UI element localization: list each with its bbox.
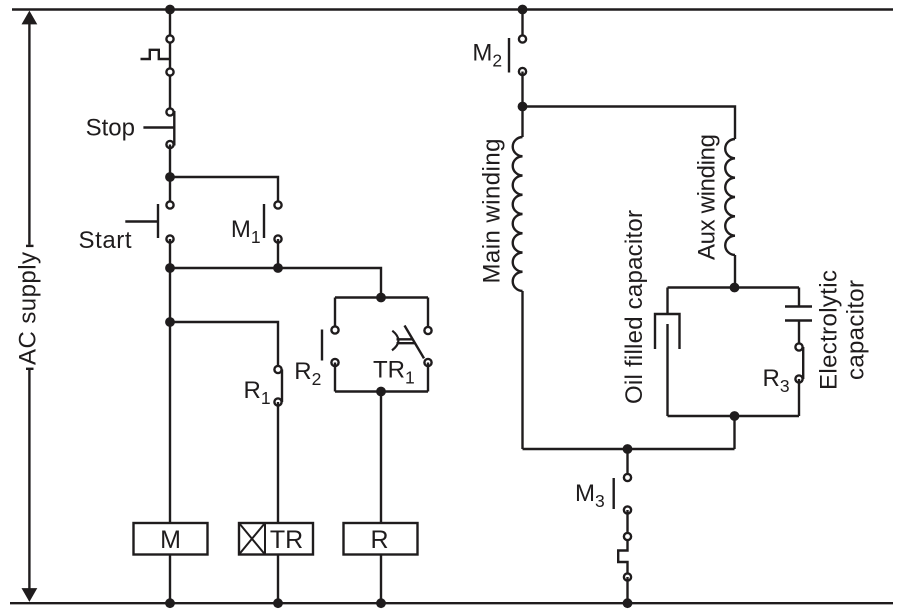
wire: R2 to bottom tie (334, 363, 336, 392)
wire: M3 to overload OL2 (626, 510, 628, 537)
contact M3: contact circle (top) (624, 474, 631, 481)
contact R2: contact circle (top) (331, 326, 338, 333)
junction: coil M at bottom rail (165, 598, 175, 608)
contact R3: contact circle (bottom) (795, 375, 802, 382)
contact M2 (NO): bridge bar (508, 38, 510, 73)
overload OL2 terminal circle (top) (624, 533, 631, 540)
pushbutton Start: contact circle (bottom) (166, 235, 173, 242)
svg-text:Electrolytic: Electrolytic (816, 270, 843, 390)
svg-text:Main winding: Main winding (479, 139, 506, 284)
top supply rail L1 (12, 8, 893, 10)
svg-text:R3: R3 (763, 365, 790, 396)
wire: M1 to node B (277, 239, 279, 268)
svg-text:M1: M1 (231, 216, 261, 247)
wire: node C branch to contact R1 (170, 322, 278, 370)
junction: node C (165, 317, 175, 327)
svg-text:M: M (160, 526, 181, 554)
wire: top rail down through overload OL1 to Stop (169, 10, 171, 113)
wire: split node to aux winding (523, 107, 736, 140)
contact R2: contact circle (bottom) (331, 359, 338, 366)
junction: winding split node (518, 102, 528, 112)
junction: node B right (273, 263, 283, 273)
contact M3 (NO): bridge bar (613, 478, 615, 509)
pushbutton Start: contact circle (top) (166, 201, 173, 208)
pushbutton Start: actuator stem (125, 220, 158, 222)
contact M1: contact circle (bottom) (274, 235, 281, 242)
wire: M2 down to main winding (521, 72, 523, 138)
timed contact TR1: time-delay arc (392, 331, 398, 351)
timed contact TR1: blade (405, 326, 425, 359)
wire: coil R to bottom rail (380, 555, 382, 604)
contact R3: contact circle (top) (795, 343, 802, 350)
wire: node A branch to M1 contact (170, 177, 278, 205)
wire: node B bus to timer branch (170, 268, 381, 298)
junction: node A (165, 172, 175, 182)
oil filled capacitor: outer plate bracket (655, 314, 680, 349)
svg-text:R: R (370, 526, 388, 554)
timed contact TR1: contact circle (top) (424, 327, 431, 334)
svg-text:R1: R1 (244, 377, 271, 408)
contact R1 (NC): bridge bar (281, 370, 283, 403)
overload heater OL2 step element (618, 537, 627, 578)
contact M2: contact circle (bottom) (519, 68, 526, 75)
wire: Start down through node B and node C to coil M (169, 239, 171, 523)
wire: capacitor bottom tie drop (733, 416, 735, 449)
wire: electrolytic capacitor to contact R3 (798, 321, 800, 348)
wire: timer branch bottom tie (335, 390, 428, 392)
tick below AC supply label (26, 368, 34, 370)
junction: coil TR at bottom rail (273, 598, 283, 608)
svg-text:TR1: TR1 (373, 357, 415, 388)
timed contact TR1: actuator line lower (397, 342, 415, 344)
wire: top tie down to oil capacitor (666, 288, 668, 315)
wire: bottom tie to coil R (380, 392, 382, 524)
junction: timer branch top (376, 293, 386, 303)
wire: R1 to coil TR (277, 402, 279, 523)
svg-text:Stop: Stop (86, 115, 135, 142)
junction: capacitor bottom tie (730, 411, 740, 421)
wire: top tie down to electrolytic capacitor (798, 288, 800, 307)
junction: coil R at bottom rail (376, 598, 386, 608)
contact R3 (NC): bridge bar (802, 347, 804, 379)
junction: capacitor top tie (730, 283, 740, 293)
AC supply arrowhead (down) (22, 588, 38, 602)
junction: left rung at top rail (165, 5, 175, 15)
tick above AC supply label (26, 245, 34, 247)
svg-text:M3: M3 (575, 480, 605, 511)
overload OL2 terminal circle (bottom) (624, 573, 631, 580)
timed contact TR1: contact circle (bottom) (424, 359, 431, 366)
wire: top tie to TR1 (427, 298, 429, 331)
wire: capacitor network bottom tie (668, 415, 800, 417)
wire: OL2 to bottom rail (626, 577, 628, 603)
AC supply dimension line: upper shaft (28, 23, 30, 245)
wire: top rail to contact M2 (521, 10, 523, 40)
contact M3: contact circle (bottom) (624, 506, 631, 513)
inductor: main winding (513, 137, 523, 291)
svg-text:TR: TR (270, 526, 303, 554)
wire: aux winding to capacitor tie (734, 255, 736, 288)
electrolytic capacitor: bottom plate (785, 319, 812, 321)
wire: R3 to bottom tie (798, 379, 800, 416)
junction: node B left (165, 263, 175, 273)
contact R2 (NO): bridge bar (321, 330, 323, 361)
junction: timer branch bottom (376, 387, 386, 397)
overload OL1 terminal circle (top) (166, 35, 173, 42)
contact M1 (NO): bridge bar (263, 204, 265, 238)
contact R1: contact circle (top) (274, 366, 281, 373)
svg-text:M2: M2 (472, 40, 502, 71)
AC supply arrowhead (up) (22, 11, 38, 25)
contact R1: contact circle (bottom) (274, 398, 281, 405)
wire: top tie to R2 (334, 298, 336, 331)
svg-text:Oil filled capacitor: Oil filled capacitor (621, 210, 648, 404)
svg-text:Aux winding: Aux winding (694, 134, 721, 260)
timed contact TR1: actuator line upper (397, 338, 413, 340)
overload OL1 terminal circle (bottom) (166, 68, 173, 75)
AC supply dimension line: lower shaft (28, 369, 30, 590)
wire: motor return line (523, 448, 735, 450)
wire: coil M to bottom rail (169, 555, 171, 604)
pushbutton Start (NO): bridge bar (157, 204, 159, 238)
wire: TR1 to bottom tie (427, 363, 429, 392)
pushbutton Stop: actuator stem (143, 126, 174, 128)
svg-text:AC supply: AC supply (15, 252, 42, 365)
wire: main winding to bottom node line (521, 291, 523, 449)
inductor: aux winding (725, 139, 735, 255)
contact M1: contact circle (top) (274, 201, 281, 208)
coil R box (344, 523, 418, 555)
wire: capacitor network top tie (668, 286, 800, 288)
junction: motor rung at bottom rail (623, 598, 633, 608)
pushbutton Stop: contact circle (top) (166, 108, 173, 115)
svg-text:capacitor: capacitor (843, 280, 870, 380)
coil TR crossed square (239, 523, 265, 555)
wire: Stop to node A (169, 145, 171, 206)
coil M box (134, 523, 208, 555)
svg-text:R2: R2 (294, 358, 321, 389)
contact M2: contact circle (top) (519, 35, 526, 42)
wire: return node to contact M3 (626, 449, 628, 478)
coil TR box (239, 523, 313, 555)
pushbutton Stop: contact circle (bottom) (166, 141, 173, 148)
svg-text:Start: Start (79, 227, 132, 254)
junction: motor return node (623, 444, 633, 454)
wire: timer branch top tie (335, 296, 428, 298)
oil filled capacitor: inner electrode and wire to bottom tie (666, 324, 668, 416)
wire: coil TR to bottom rail (277, 555, 279, 604)
electrolytic capacitor: top plate (785, 305, 812, 307)
bottom supply rail L2 (10, 602, 893, 604)
overload heater OL1 bump symbol (141, 50, 171, 59)
junction: right rung at top rail (518, 5, 528, 15)
pushbutton Stop (NC): bridge bar (173, 111, 175, 146)
